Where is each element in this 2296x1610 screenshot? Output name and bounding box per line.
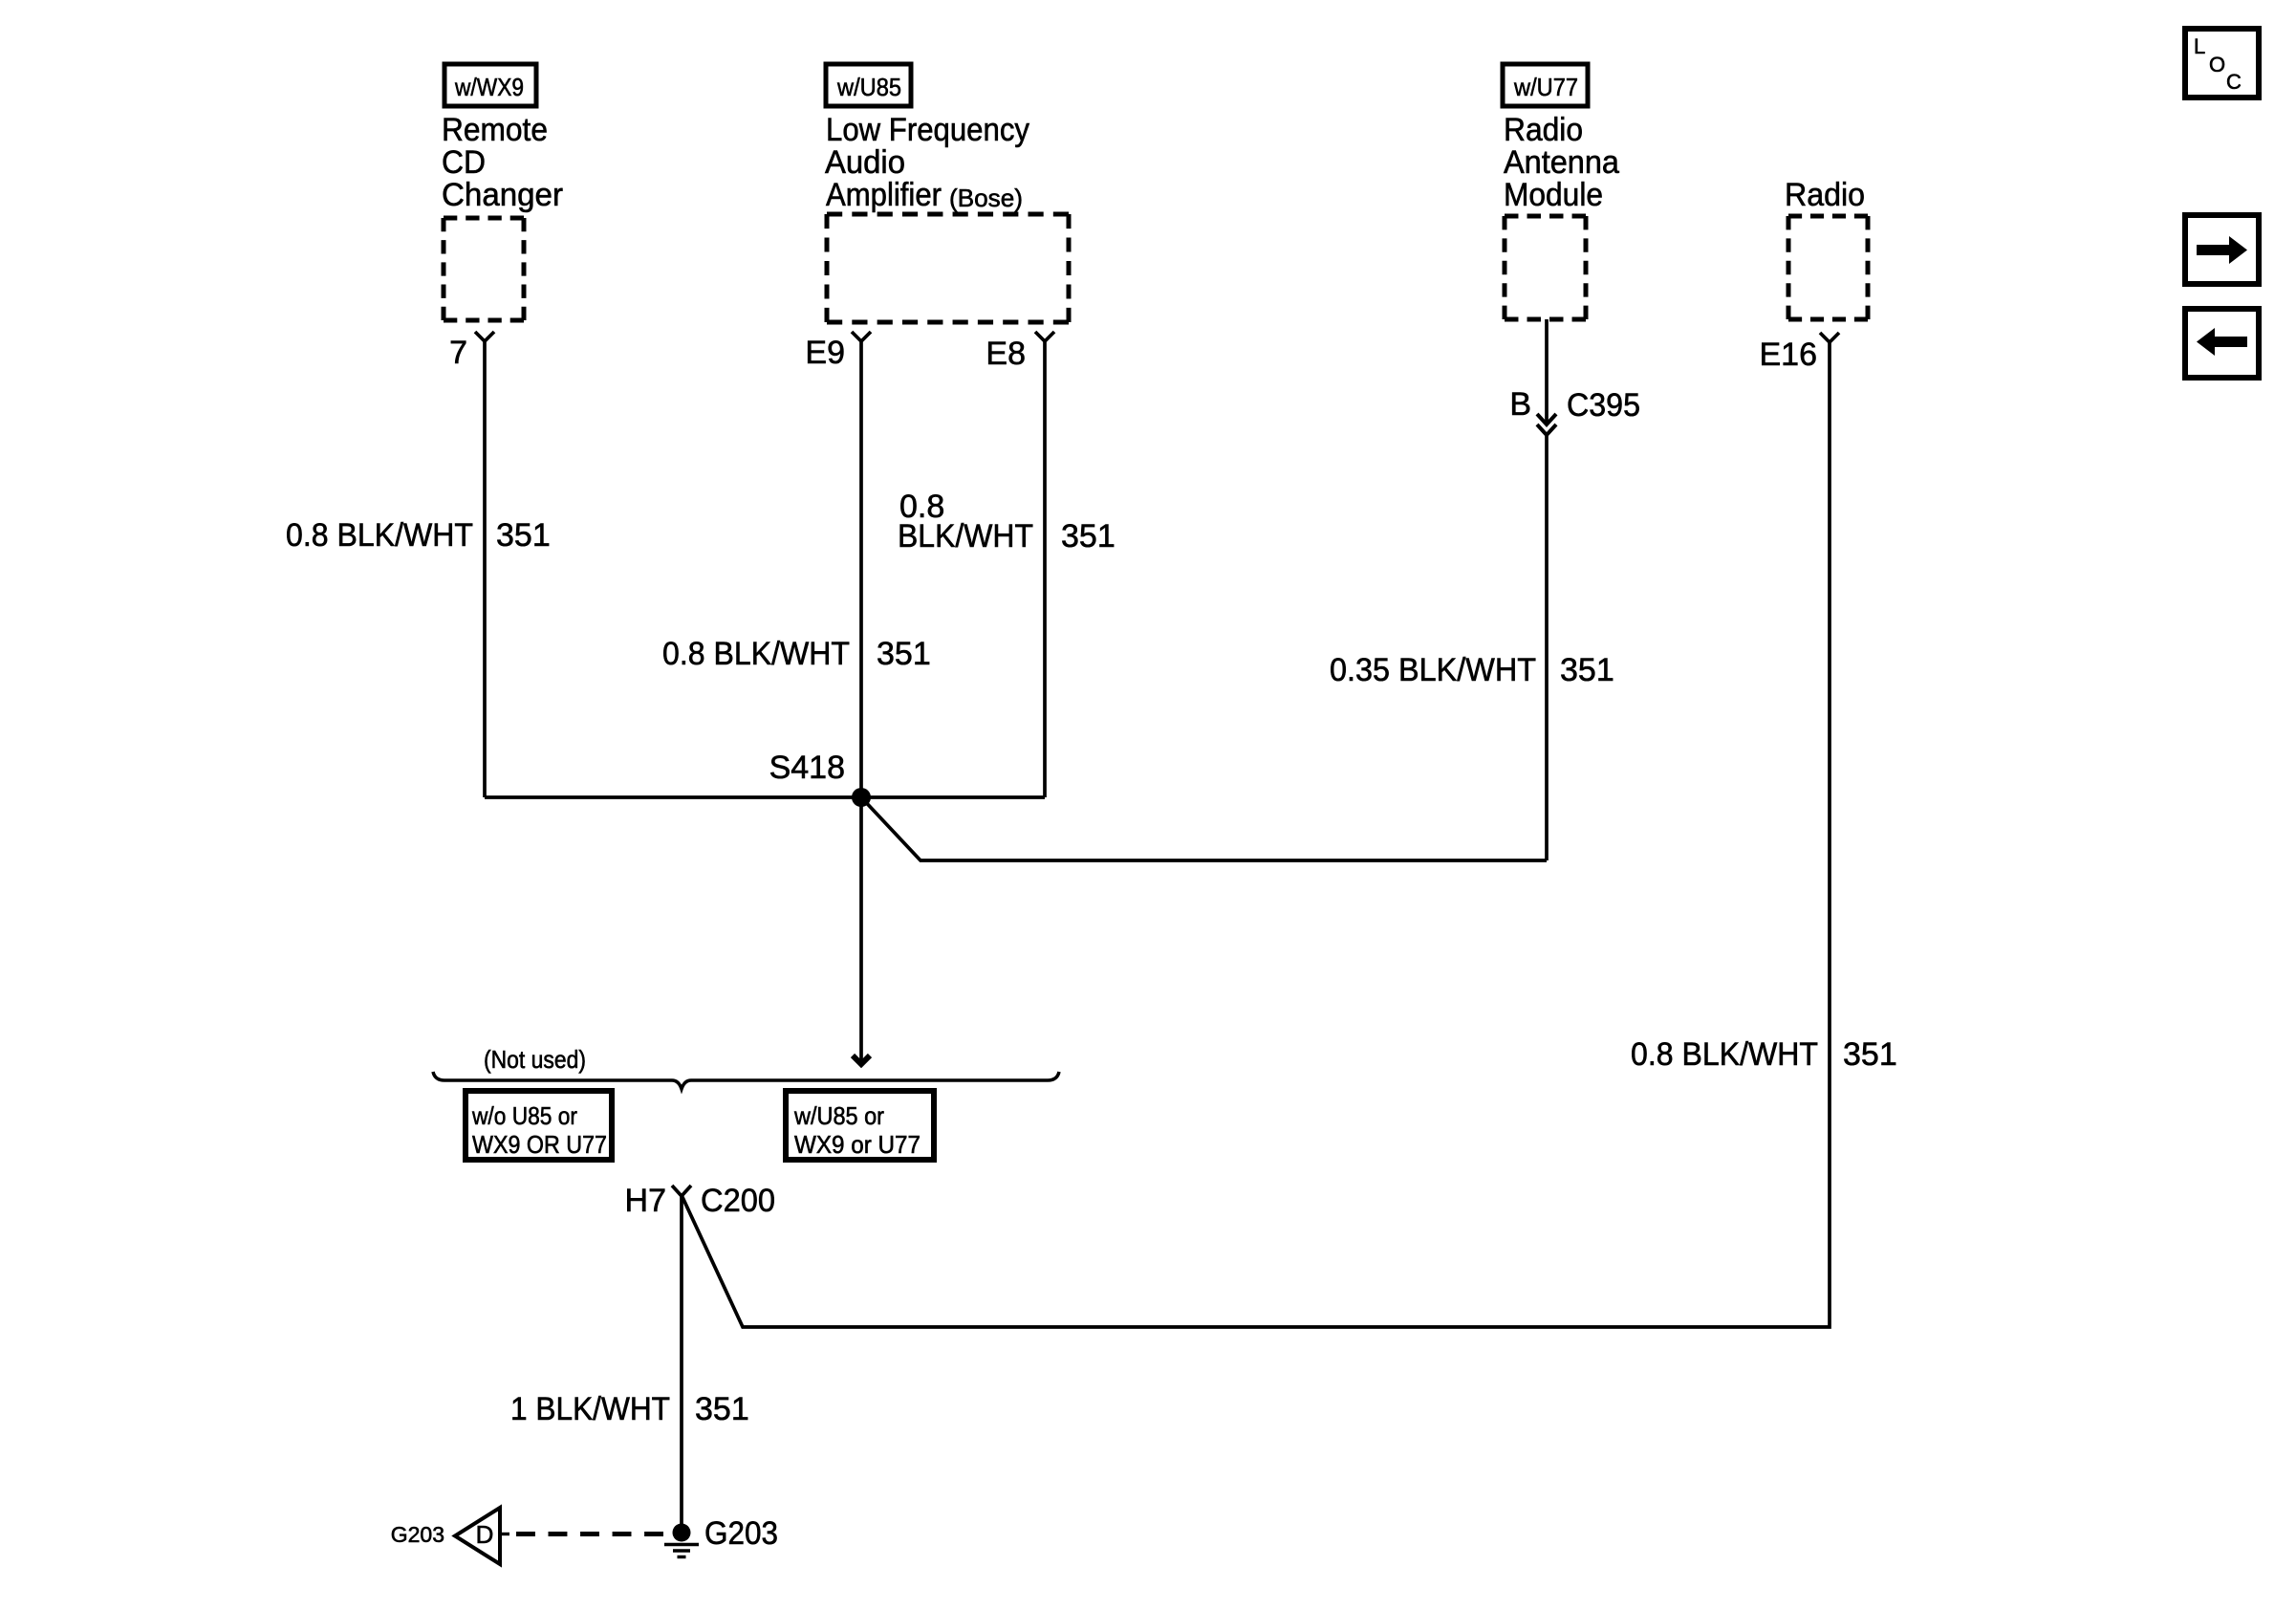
svg-text:351: 351 [695,1391,749,1427]
svg-text:Audio: Audio [825,144,905,181]
svg-text:Radio: Radio [1504,112,1583,148]
svg-text:G203: G203 [391,1522,444,1547]
svg-text:w/U77: w/U77 [1513,73,1578,101]
svg-text:BLK/WHT: BLK/WHT [898,518,1033,555]
svg-text:Low Frequency: Low Frequency [826,112,1029,148]
svg-text:0.35 BLK/WHT: 0.35 BLK/WHT [1330,652,1536,688]
svg-text:C395: C395 [1567,387,1640,424]
svg-text:E9: E9 [805,335,845,371]
svg-text:C200: C200 [701,1183,775,1219]
svg-text:(Not used): (Not used) [484,1045,586,1074]
svg-text:351: 351 [877,636,931,672]
svg-text:(Bose): (Bose) [949,184,1023,212]
svg-text:Remote: Remote [442,112,548,148]
svg-text:D: D [476,1520,494,1549]
svg-text:Antenna: Antenna [1504,144,1619,181]
svg-text:H7: H7 [625,1183,666,1219]
svg-text:w/U85: w/U85 [836,73,901,101]
svg-text:w/WX9: w/WX9 [454,73,524,101]
svg-text:Radio: Radio [1785,177,1865,213]
svg-text:0.8 BLK/WHT: 0.8 BLK/WHT [286,517,473,554]
svg-text:G203: G203 [704,1515,778,1552]
svg-text:w/U85 or: w/U85 or [793,1101,884,1130]
svg-text:0.8 BLK/WHT: 0.8 BLK/WHT [1631,1036,1818,1073]
svg-text:1 BLK/WHT: 1 BLK/WHT [510,1391,670,1427]
svg-text:WX9 or U77: WX9 or U77 [794,1130,921,1159]
svg-text:L: L [2194,34,2205,58]
svg-text:351: 351 [1560,652,1614,688]
svg-text:Amplifier: Amplifier [826,177,942,213]
svg-text:E16: E16 [1760,337,1818,373]
svg-text:O: O [2209,53,2225,76]
svg-text:Changer: Changer [442,177,563,213]
svg-text:B: B [1509,386,1531,423]
svg-text:0.8 BLK/WHT: 0.8 BLK/WHT [662,636,850,672]
svg-text:CD: CD [442,144,486,181]
svg-text:351: 351 [1061,518,1116,555]
svg-text:7: 7 [449,335,467,371]
svg-text:WX9 OR U77: WX9 OR U77 [472,1130,607,1159]
svg-text:Module: Module [1504,177,1603,213]
svg-text:E8: E8 [986,336,1026,372]
svg-text:351: 351 [1843,1036,1897,1073]
svg-text:w/o U85 or: w/o U85 or [471,1101,577,1130]
svg-text:C: C [2226,70,2242,94]
svg-text:351: 351 [496,517,551,554]
svg-text:S418: S418 [769,750,845,786]
